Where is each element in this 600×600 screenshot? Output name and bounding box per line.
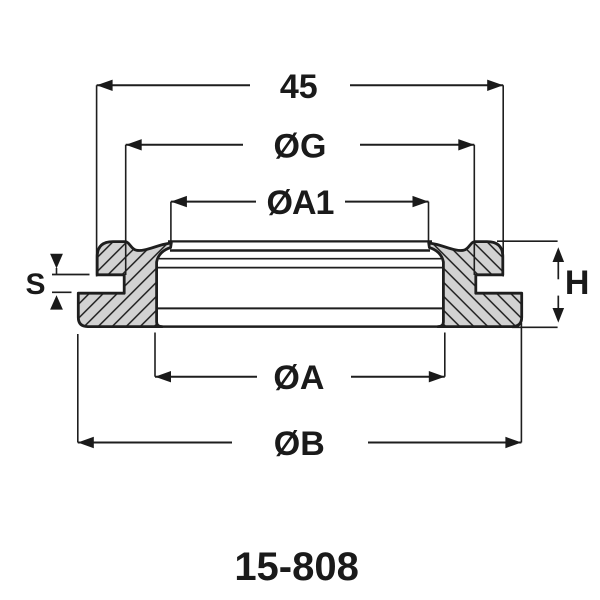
svg-text:45: 45 [280,68,318,106]
svg-text:ØB: ØB [274,425,325,463]
svg-text:H: H [565,264,590,302]
svg-text:15-808: 15-808 [234,545,359,589]
svg-text:ØG: ØG [274,127,327,165]
svg-text:S: S [25,268,45,301]
svg-text:ØA1: ØA1 [267,184,334,222]
svg-text:ØA: ØA [273,359,324,397]
